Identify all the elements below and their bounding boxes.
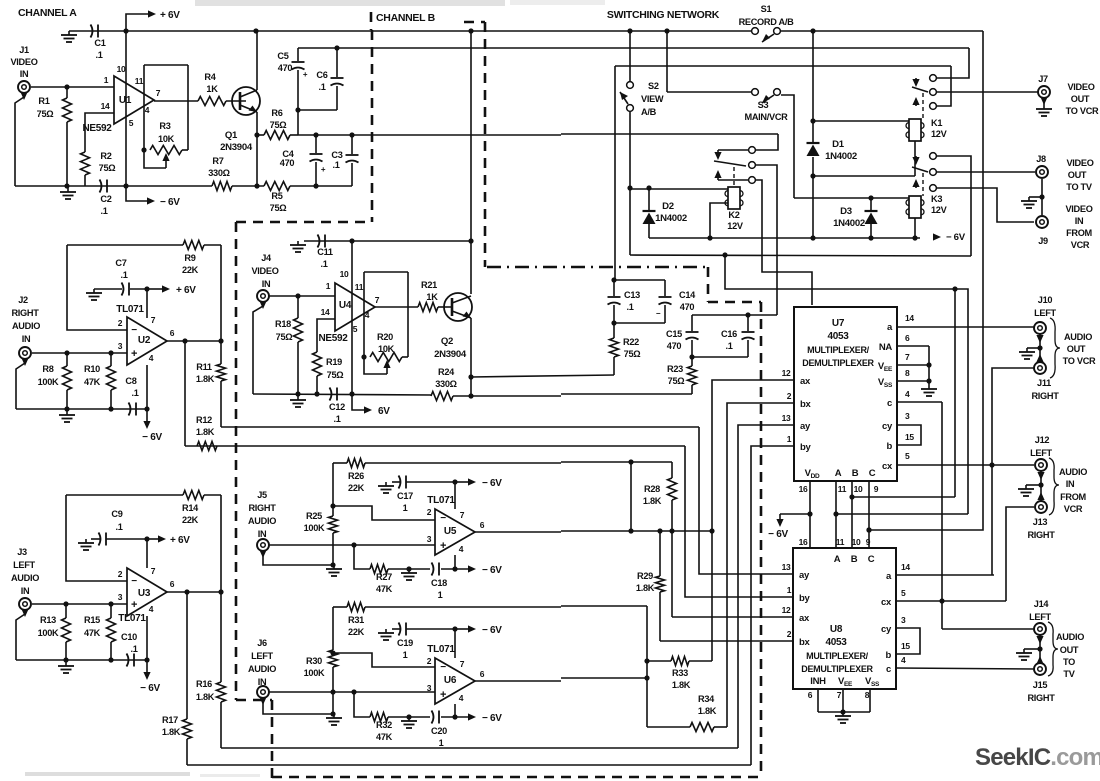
wire S2 col bottom: [629, 112, 631, 255]
svg-text:IN: IN: [258, 529, 267, 539]
svg-text:22K: 22K: [182, 265, 199, 275]
svg-text:7: 7: [375, 295, 380, 305]
arrow -6V switch: [933, 233, 941, 240]
resistor R21: [418, 303, 438, 312]
capacitor C7: [122, 283, 124, 296]
node supply col bottom: [123, 183, 128, 188]
svg-text:OUT: OUT: [1068, 170, 1087, 180]
wire K2 top contact stub: [718, 149, 749, 151]
ground at C7: [93, 289, 95, 293]
wire rail3 to C13: [614, 66, 616, 280]
connector J12: [1035, 459, 1047, 471]
node Q2 emitter rail: [468, 393, 473, 398]
svg-text:1: 1: [403, 503, 408, 513]
wire U3 output: [167, 591, 221, 593]
svg-text:J9: J9: [1038, 236, 1048, 246]
node C18 pin4: [452, 566, 457, 571]
wire J14 feed: [942, 628, 1034, 630]
svg-text:+ 6V: + 6V: [160, 10, 180, 21]
dashed border left vertical: [235, 222, 238, 700]
resistor R25: [332, 463, 334, 516]
wire Q1 emitter col: [256, 112, 258, 186]
node J11 J12 tie: [989, 462, 994, 467]
svg-text:− 6V: − 6V: [482, 625, 502, 636]
wire R21 to Q2: [438, 306, 452, 308]
svg-text:bx: bx: [800, 399, 812, 410]
node B tie: [849, 494, 854, 499]
capacitor C16: [747, 315, 749, 331]
svg-text:100K: 100K: [304, 668, 325, 678]
wire S3 to K3: [781, 95, 794, 198]
svg-text:U4: U4: [339, 300, 352, 311]
svg-text:C15: C15: [666, 329, 682, 339]
dashed border right vertical: [760, 302, 763, 778]
svg-text:7: 7: [460, 659, 465, 669]
wire AB staircase: [725, 255, 968, 514]
svg-text:FROM: FROM: [1060, 492, 1086, 502]
wire J8 J9 stem: [1041, 179, 1043, 215]
svg-text:12V: 12V: [931, 129, 948, 139]
wire video A line: [298, 134, 561, 136]
svg-text:47K: 47K: [84, 628, 101, 638]
transistor Q1: [232, 87, 260, 115]
svg-text:R22: R22: [623, 337, 639, 347]
svg-text:AUDIO: AUDIO: [1059, 467, 1087, 477]
op-amp U3 triangle: [127, 568, 167, 616]
node R33 left: [644, 658, 649, 663]
svg-text:R30: R30: [306, 656, 322, 666]
node C11 riser: [468, 238, 473, 243]
arrow -6V U4: [352, 394, 364, 410]
capacitor C17: [399, 476, 401, 489]
node C15 bottom: [689, 354, 694, 359]
svg-text:TL071: TL071: [427, 644, 455, 655]
wire K3 coil bottom: [914, 218, 916, 238]
svg-text:C: C: [868, 554, 875, 565]
svg-text:13: 13: [782, 413, 791, 423]
svg-text:cy: cy: [882, 421, 893, 432]
op-amp U5 triangle: [435, 509, 475, 555]
wire U4 pin14: [317, 319, 335, 352]
wire mixer col 647: [646, 606, 648, 727]
IC U8 box: [793, 548, 896, 689]
svg-text:VDD: VDD: [805, 468, 820, 480]
svg-text:9: 9: [874, 484, 879, 494]
svg-text:R11: R11: [196, 362, 212, 372]
svg-text:14: 14: [901, 562, 910, 572]
svg-text:5: 5: [905, 451, 910, 461]
svg-text:ay: ay: [800, 421, 811, 432]
resistor R32: [370, 713, 388, 722]
relay K3 contacts: [930, 153, 937, 160]
svg-text:RIGHT: RIGHT: [1027, 530, 1055, 540]
wire U6 pin7 col: [454, 629, 456, 658]
wire R33 col lower: [711, 531, 713, 661]
connector J9: [1036, 216, 1048, 228]
node Q1 collector rail: [253, 28, 258, 33]
resistor R7: [212, 182, 232, 191]
svg-text:B: B: [851, 554, 858, 565]
svg-text:1.8K: 1.8K: [196, 374, 215, 384]
svg-text:R24: R24: [438, 367, 455, 377]
wire J1 to U1 pin1: [31, 86, 114, 88]
svg-text:C20: C20: [431, 726, 447, 736]
wire pin2 feed U6: [333, 653, 435, 667]
relay K2 link: [733, 167, 735, 187]
node R10 bottom: [108, 406, 113, 411]
svg-text:R34: R34: [698, 694, 715, 704]
wire U8 ax feed: [672, 616, 793, 618]
U7 pin a wire to J10: [897, 326, 1034, 328]
faint scan artifact top: [195, 0, 505, 6]
svg-text:1: 1: [439, 738, 444, 748]
svg-text:C3: C3: [331, 150, 342, 160]
wire K3 top col: [937, 156, 971, 256]
svg-text:A/B: A/B: [641, 107, 657, 117]
svg-text:14: 14: [321, 307, 330, 317]
svg-text:3: 3: [427, 683, 432, 693]
resistor R8: [66, 353, 68, 366]
relay K2 bottom contact: [749, 177, 756, 184]
node R27 gnd: [406, 566, 411, 571]
switch S2: [627, 82, 634, 89]
wire R9 down to output: [220, 245, 222, 341]
svg-text:VCR: VCR: [1064, 504, 1083, 514]
wire R31 row: [333, 606, 347, 608]
svg-text:D3: D3: [840, 206, 852, 217]
wire U8 by feed: [685, 446, 793, 597]
node R20 left: [361, 354, 366, 359]
wire J2 input: [32, 352, 127, 354]
node R1 top: [64, 84, 69, 89]
svg-text:.1: .1: [333, 414, 340, 424]
svg-text:−: −: [440, 662, 446, 673]
svg-text:1.8K: 1.8K: [196, 692, 215, 702]
wire U2 pin2: [67, 245, 127, 330]
node C13 bottom: [611, 320, 616, 325]
potentiometer R3: [150, 146, 182, 155]
svg-text:75Ω: 75Ω: [99, 163, 116, 173]
arrow -6V U5 bottom: [441, 568, 468, 570]
svg-text:4: 4: [149, 604, 154, 614]
svg-text:6: 6: [905, 333, 910, 343]
wire R17 bus: [187, 764, 751, 766]
svg-text:R28: R28: [644, 484, 660, 494]
wire J11 feed: [992, 368, 1034, 575]
diode D1: [807, 142, 820, 144]
C17 row: [392, 481, 400, 483]
svg-text:U7: U7: [832, 318, 845, 329]
wire K2 coil left down: [710, 203, 728, 238]
wire -6V A: [126, 186, 147, 201]
svg-text:K2: K2: [728, 210, 739, 220]
resistor R27: [370, 565, 388, 574]
svg-text:7: 7: [151, 566, 156, 576]
svg-text:R17: R17: [162, 715, 178, 725]
arrow -6V U2: [146, 409, 148, 421]
resistor R30: [332, 607, 334, 650]
capacitor C6: [336, 48, 338, 77]
svg-text:6: 6: [480, 669, 485, 679]
R32 row: [354, 692, 370, 717]
wire K3 bottom contact: [937, 188, 1034, 222]
node supply col U4 top: [349, 238, 354, 243]
resistor R34: [647, 726, 690, 728]
wire S3 riser: [666, 31, 668, 92]
svg-text:R4: R4: [204, 72, 216, 82]
svg-text:b: b: [885, 650, 891, 661]
node D1 bottom: [810, 173, 815, 178]
svg-text:4053: 4053: [827, 331, 849, 342]
node C6 top: [334, 45, 339, 50]
svg-text:8: 8: [905, 368, 910, 378]
svg-text:.1: .1: [130, 644, 137, 654]
wire K1 coil bottom: [914, 141, 916, 176]
dashed border step h1: [708, 301, 761, 304]
connector J15: [1034, 663, 1046, 675]
wire video A to K2: [756, 134, 778, 150]
brace audio out vcr: [1050, 318, 1060, 378]
svg-text:− 6V: − 6V: [140, 683, 160, 694]
svg-text:VIDEO: VIDEO: [10, 57, 37, 67]
svg-text:7: 7: [837, 690, 842, 700]
node C13 top: [611, 277, 616, 282]
capacitor C20: [432, 711, 434, 724]
wire J3 input: [32, 603, 127, 605]
J12 ground branch: [1026, 484, 1041, 486]
svg-text:R18: R18: [275, 319, 291, 329]
svg-text:J1: J1: [19, 45, 29, 55]
wire R9 row: [67, 244, 183, 246]
svg-text:VEE: VEE: [878, 361, 893, 373]
wire K3 coil row: [794, 197, 909, 199]
wire J4 shield: [259, 301, 266, 309]
svg-text:VIEW: VIEW: [641, 94, 664, 104]
svg-text:C10: C10: [121, 632, 137, 642]
dashed border left jog: [236, 221, 372, 224]
U7 cx wire to J12: [897, 464, 1034, 466]
wire S1 rail down: [869, 31, 983, 530]
svg-text:7: 7: [905, 352, 910, 362]
svg-text:− 6V: − 6V: [768, 529, 788, 540]
svg-text:MAIN/VCR: MAIN/VCR: [744, 112, 788, 122]
diode D2: [648, 188, 650, 211]
resistor R18: [297, 296, 299, 318]
svg-text:J10: J10: [1038, 295, 1053, 305]
wire U7 bx feed: [727, 403, 793, 727]
svg-text:4: 4: [459, 693, 464, 703]
capacitor C8: [129, 403, 131, 416]
svg-text:NE592: NE592: [318, 333, 348, 344]
svg-text:11: 11: [135, 76, 144, 86]
svg-text:11: 11: [838, 484, 847, 494]
node channel B supply tap: [468, 28, 473, 33]
J14 ground branch: [1024, 648, 1040, 650]
svg-text:10: 10: [854, 484, 863, 494]
svg-text:− 6V: − 6V: [946, 232, 966, 243]
svg-text:3: 3: [118, 341, 123, 351]
svg-text:VCR: VCR: [1071, 240, 1090, 250]
svg-text:12: 12: [782, 605, 791, 615]
dashed border step v1: [707, 267, 710, 302]
svg-text:C5: C5: [277, 51, 288, 61]
svg-text:2: 2: [787, 391, 792, 401]
svg-text:OUT: OUT: [1060, 645, 1079, 655]
svg-text:−: −: [131, 576, 137, 587]
op-amp U6 triangle: [435, 658, 475, 704]
arrow +6V: [148, 10, 156, 17]
svg-text:C18: C18: [431, 578, 447, 588]
svg-text:U5: U5: [444, 526, 457, 537]
svg-text:10: 10: [852, 537, 861, 547]
node A tie: [833, 511, 838, 516]
ground symbol R32: [408, 717, 410, 721]
svg-text:.1: .1: [120, 270, 127, 280]
capacitor C10: [127, 654, 129, 667]
svg-text:10K: 10K: [378, 344, 395, 354]
svg-text:6: 6: [170, 579, 175, 589]
wire Q1 collector: [256, 31, 258, 90]
wire supply col U4: [351, 241, 353, 394]
node C3 top: [349, 132, 354, 137]
svg-text:.1: .1: [318, 82, 325, 92]
capacitor C18: [432, 563, 434, 576]
U7 NA VEE VSS ties: [897, 345, 929, 347]
arrow -6V U6 top: [455, 628, 468, 630]
resistor R9: [183, 241, 204, 250]
svg-text:4: 4: [905, 389, 910, 399]
resistor R2: [81, 152, 90, 175]
wire +6V riser: [126, 14, 148, 31]
svg-text:4053: 4053: [825, 637, 847, 648]
svg-text:75Ω: 75Ω: [270, 120, 287, 130]
node R15 top: [108, 601, 113, 606]
node R10 top: [108, 350, 113, 355]
svg-text:C8: C8: [125, 376, 136, 386]
wire J10 J11 stem: [1039, 334, 1041, 362]
op-amp U2 triangle: [127, 317, 167, 365]
feedback box right R3: [187, 65, 189, 150]
svg-text:LEFT: LEFT: [1029, 612, 1051, 622]
svg-text:LEFT: LEFT: [1030, 448, 1052, 458]
svg-text:RECORD A/B: RECORD A/B: [739, 17, 795, 27]
svg-text:IN: IN: [1066, 479, 1075, 489]
svg-text:75Ω: 75Ω: [327, 370, 344, 380]
node J12 gnd: [1038, 482, 1043, 487]
svg-text:12: 12: [782, 368, 791, 378]
svg-text:NE592: NE592: [82, 123, 112, 134]
node Q1 emitter rail: [254, 183, 259, 188]
node C1/+6V riser: [123, 28, 128, 33]
node D1 bottom row: [810, 235, 815, 240]
svg-text:LEFT: LEFT: [251, 651, 273, 661]
wire U5 pin4 col: [454, 555, 456, 569]
wire R28 tap col: [630, 462, 632, 531]
U8 bottom stubs: [817, 689, 819, 712]
connector J10: [1034, 322, 1046, 334]
wire Q2 emitter to R22: [471, 375, 614, 377]
svg-text:a: a: [887, 322, 893, 333]
relay K2 middle contact: [749, 162, 756, 169]
node D3 top: [868, 195, 873, 200]
svg-text:C17: C17: [397, 491, 413, 501]
svg-text:c: c: [886, 664, 891, 675]
wire R12 col: [184, 341, 186, 446]
node D2 top: [646, 185, 651, 190]
svg-text:VEE: VEE: [838, 676, 853, 688]
gnd rail J4 left: [253, 394, 431, 395]
svg-text:470: 470: [278, 63, 293, 73]
wire S2 col top: [629, 31, 631, 82]
ground at C9: [85, 539, 87, 543]
resistor R17: [186, 592, 188, 719]
node D1 coil top row: [810, 118, 815, 123]
svg-text:1: 1: [326, 281, 331, 291]
resistor R19: [313, 352, 322, 376]
wire J2 shield: [21, 358, 28, 366]
svg-text:4: 4: [149, 353, 154, 363]
svg-text:MULTIPLEXER/: MULTIPLEXER/: [807, 345, 870, 355]
svg-text:75Ω: 75Ω: [276, 332, 293, 342]
svg-text:by: by: [800, 442, 812, 453]
svg-text:A: A: [834, 554, 841, 565]
resistor R5: [264, 182, 290, 191]
-6V U7 supply: [780, 513, 810, 515]
node R28 bus tap: [628, 459, 633, 464]
node pin7 U2: [144, 286, 149, 291]
svg-text:DEMULTIPLEXER: DEMULTIPLEXER: [801, 664, 873, 674]
svg-text:b: b: [886, 441, 892, 452]
node pin7 U3: [144, 536, 149, 541]
R27 row: [354, 545, 370, 569]
wire C5-C6 bottom node: [298, 109, 337, 111]
R20 box right: [407, 272, 409, 357]
svg-text:5: 5: [129, 118, 134, 128]
node pin7 U6: [452, 626, 457, 631]
node U2 out R11: [218, 338, 223, 343]
resistor R6: [264, 131, 290, 140]
svg-text:R33: R33: [672, 668, 688, 678]
wire C11 riser to rail1: [470, 31, 472, 294]
J8 ground branch: [1029, 196, 1042, 198]
svg-text:C12: C12: [329, 402, 345, 412]
node U3 out R16: [218, 589, 223, 594]
svg-text:R26: R26: [348, 471, 364, 481]
svg-text:R13: R13: [40, 615, 56, 625]
svg-text:INH: INH: [810, 676, 826, 687]
wire J14 J15 stem: [1039, 635, 1041, 663]
wire U3 pin2: [66, 495, 127, 581]
capacitor C3: [351, 135, 353, 154]
wire B control col: [954, 289, 956, 497]
svg-text:10: 10: [117, 64, 126, 74]
svg-text:47K: 47K: [376, 584, 393, 594]
svg-text:K3: K3: [931, 194, 942, 204]
svg-text:.1: .1: [95, 50, 102, 60]
svg-text:S1: S1: [761, 4, 772, 14]
U8 cy-b loop: [896, 628, 920, 654]
U7 cy-b loop: [897, 425, 921, 445]
ground at C19: [385, 629, 387, 633]
svg-text:FROM: FROM: [1066, 228, 1092, 238]
node supply col U4 bottom: [349, 391, 354, 396]
svg-text:D1: D1: [832, 139, 845, 150]
resistor R31: [347, 603, 365, 612]
svg-text:470: 470: [680, 302, 695, 312]
node J14 gnd: [1037, 646, 1042, 651]
svg-text:ax: ax: [799, 613, 810, 624]
node Q1 emitter R6: [254, 132, 259, 137]
